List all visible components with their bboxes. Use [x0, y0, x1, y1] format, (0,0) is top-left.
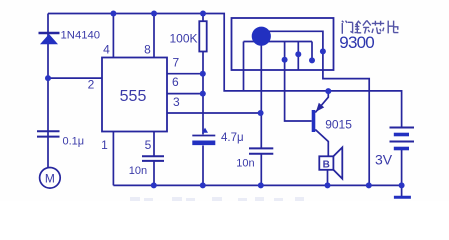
svg-text:555: 555 — [120, 88, 147, 105]
svg-text:10n: 10n — [129, 165, 147, 177]
svg-text:6: 6 — [172, 75, 179, 89]
svg-text:5: 5 — [145, 138, 152, 152]
svg-text:9300: 9300 — [339, 33, 374, 52]
svg-text:4.7μ: 4.7μ — [221, 132, 244, 144]
svg-text:M: M — [45, 171, 55, 185]
svg-text:9015: 9015 — [325, 118, 352, 132]
svg-text:4: 4 — [103, 43, 110, 57]
svg-text:8: 8 — [144, 43, 151, 57]
svg-text:1N4140: 1N4140 — [61, 30, 101, 42]
svg-text:2: 2 — [88, 78, 95, 92]
svg-text:10n: 10n — [236, 158, 254, 170]
svg-text:B: B — [323, 159, 330, 170]
svg-text:1: 1 — [101, 138, 108, 152]
svg-text:3: 3 — [173, 95, 180, 109]
svg-text:7: 7 — [172, 56, 179, 70]
svg-text:100K: 100K — [170, 32, 198, 46]
svg-text:0.1μ: 0.1μ — [63, 136, 85, 148]
svg-text:3V: 3V — [375, 152, 393, 168]
